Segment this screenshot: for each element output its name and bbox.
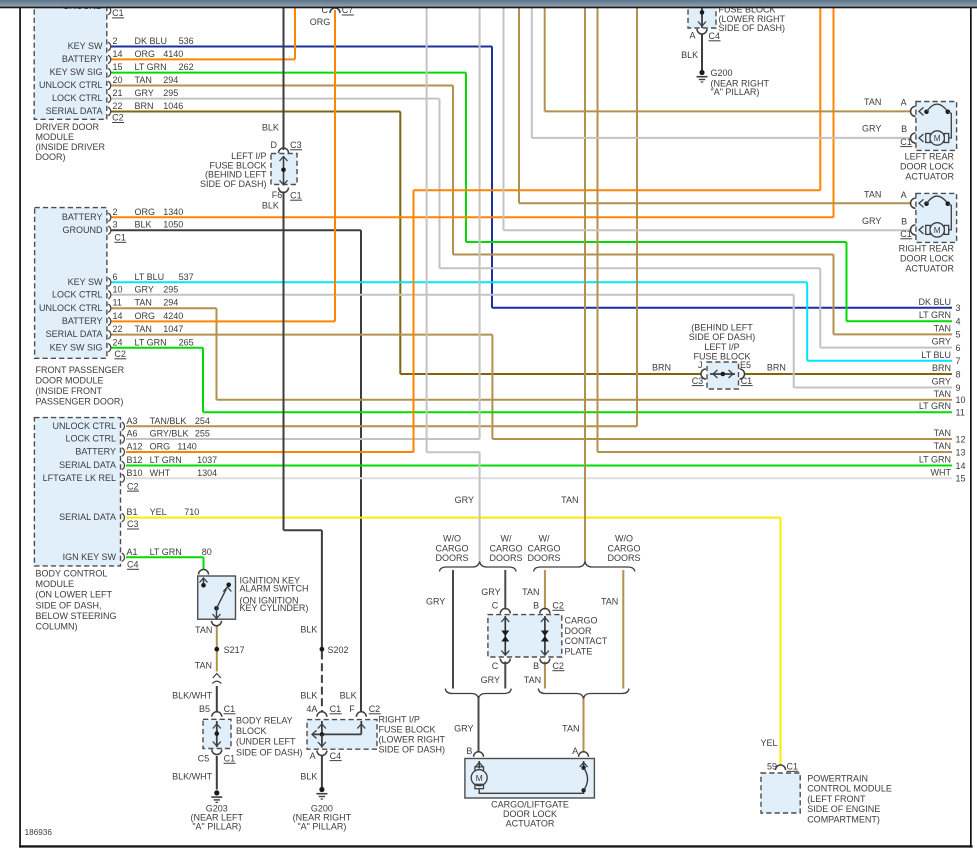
svg-text:CARGO: CARGO (565, 616, 598, 626)
wire GRY/BLK 255 from pin A6 (126, 438, 480, 440)
svg-text:ORG: ORG (135, 311, 156, 321)
svg-text:F: F (349, 704, 355, 714)
pin A12 BATTERY (122, 448, 125, 456)
front passenger door module box (35, 208, 107, 359)
ground G203 (214, 790, 219, 795)
svg-text:CARGO: CARGO (489, 543, 522, 553)
svg-text:(LOWER RIGHT: (LOWER RIGHT (379, 735, 446, 745)
svg-text:GRY: GRY (135, 284, 154, 294)
svg-text:DRIVER DOOR: DRIVER DOOR (36, 122, 100, 132)
wire ORG 4240 from pin 14 (111, 320, 335, 322)
svg-text:C1: C1 (900, 229, 912, 239)
svg-text:FRONT PASSENGER: FRONT PASSENGER (36, 365, 125, 375)
pin 22 SERIAL DATA (108, 107, 111, 115)
svg-text:COLUMN): COLUMN) (36, 622, 78, 632)
cargo/liftgate door lock actuator internals (478, 761, 480, 769)
wire BLK driver door ground to fuse block (283, 8, 285, 150)
wire TAN 294 from pin 11 (111, 307, 217, 309)
pin 10 LOCK CTRL (108, 291, 111, 299)
wire BLK dashed from S202 to right I/P fuse block (321, 652, 323, 713)
wire LT GRN vertical right (846, 242, 848, 321)
wire TAN ignition switch to S217 (216, 627, 218, 648)
left I/P fuse block (D-F6) box (271, 154, 297, 185)
svg-text:A6: A6 (127, 429, 138, 439)
wire LT GRN 265 vertical (202, 348, 204, 412)
wire BRN to fuse block pin J (400, 373, 701, 375)
svg-text:BLK: BLK (135, 220, 152, 230)
svg-text:ALARM SWITCH: ALARM SWITCH (240, 583, 309, 593)
body control module box (34, 418, 120, 566)
svg-text:1046: 1046 (163, 101, 183, 111)
wire TAN/BLK 254 from BCM pin A3 (126, 425, 637, 427)
svg-text:BATTERY: BATTERY (62, 212, 103, 222)
svg-text:PLATE: PLATE (565, 646, 593, 656)
svg-text:BODY CONTROL: BODY CONTROL (36, 569, 108, 579)
svg-text:DOORS: DOORS (489, 553, 522, 563)
svg-text:(BEHIND LEFT: (BEHIND LEFT (691, 323, 753, 333)
svg-text:22: 22 (113, 101, 123, 111)
wire TAN to terminal 13 (598, 451, 953, 453)
wire GRY 295 from pin 10 (111, 294, 794, 296)
svg-text:11: 11 (956, 408, 965, 418)
wire LT GRN 80 down to ignition switch (203, 557, 205, 569)
svg-text:BODY RELAY: BODY RELAY (236, 716, 293, 726)
svg-text:GRY/BLK: GRY/BLK (150, 429, 189, 439)
svg-text:24: 24 (113, 337, 123, 347)
wire TAN to left rear actuator pin A (545, 110, 912, 112)
svg-text:1050: 1050 (163, 220, 183, 230)
svg-text:ACTUATOR: ACTUATOR (905, 264, 954, 274)
inline connector on BLK/WHT wire (213, 674, 221, 679)
svg-text:14: 14 (113, 311, 123, 321)
svg-text:A: A (689, 31, 695, 41)
wire TAN to cargo actuator pin A (583, 698, 585, 753)
left rear door lock actuator internals (911, 106, 916, 116)
wire BLK 1050 from pin 3 (111, 229, 361, 231)
fuse block lower right side of dash internals (701, 6, 703, 28)
svg-text:11: 11 (113, 298, 122, 308)
svg-text:C2: C2 (552, 661, 564, 671)
svg-text:BLK: BLK (300, 772, 317, 782)
wire GRY to right rear actuator pin B (504, 229, 912, 231)
svg-text:B: B (533, 601, 539, 611)
wire TAN to terminal 5 (834, 333, 953, 335)
wire TAN 294 vertical (452, 86, 454, 255)
svg-text:C5: C5 (198, 754, 210, 764)
svg-text:186936: 186936 (25, 828, 53, 837)
svg-text:294: 294 (163, 298, 178, 308)
svg-text:1047: 1047 (163, 324, 183, 334)
svg-text:C3: C3 (127, 519, 139, 529)
svg-text:SIDE OF DASH): SIDE OF DASH) (719, 23, 786, 33)
svg-text:W/: W/ (501, 534, 512, 544)
svg-text:(ON LOWER LEFT: (ON LOWER LEFT (36, 590, 113, 600)
svg-text:TAN: TAN (864, 190, 881, 200)
svg-text:GRY: GRY (481, 587, 500, 597)
svg-text:BLK/WHT: BLK/WHT (172, 772, 213, 782)
wire GRY jog (427, 451, 480, 453)
wire LT GRN 80 from pin A1 (126, 556, 204, 558)
svg-text:TAN: TAN (934, 323, 951, 333)
svg-text:1037: 1037 (197, 455, 217, 465)
svg-text:TAN: TAN (522, 587, 539, 597)
svg-text:255: 255 (195, 429, 210, 439)
svg-text:TAN: TAN (195, 661, 212, 671)
svg-text:SIDE OF DASH): SIDE OF DASH) (236, 747, 303, 757)
upper brace tan split (534, 562, 635, 572)
svg-text:SERIAL DATA: SERIAL DATA (46, 106, 103, 116)
svg-text:BRN: BRN (767, 362, 786, 372)
wire GRY/BLK vertical to top (479, 8, 481, 439)
wire TAN from top to cargo brace (584, 8, 586, 562)
svg-text:ACTUATOR: ACTUATOR (905, 172, 954, 182)
svg-text:295: 295 (163, 284, 178, 294)
svg-text:5: 5 (956, 330, 961, 340)
svg-text:LT GRN: LT GRN (919, 401, 951, 411)
svg-text:C2: C2 (112, 113, 124, 123)
svg-text:(LEFT FRONT: (LEFT FRONT (807, 794, 866, 804)
svg-text:TAN: TAN (601, 597, 618, 607)
wire GRY 295 vertical (439, 99, 441, 269)
svg-text:BRN: BRN (135, 101, 154, 111)
body relay block internals (216, 721, 218, 747)
svg-text:A: A (572, 746, 578, 756)
svg-text:BELOW STEERING: BELOW STEERING (36, 611, 117, 621)
svg-text:6: 6 (113, 272, 118, 282)
svg-text:B10: B10 (127, 468, 143, 478)
svg-text:BLK/WHT: BLK/WHT (172, 691, 213, 701)
pin A1 IGN KEY SW (122, 553, 125, 561)
wire GRY to terminal 6 (820, 347, 952, 349)
right I/P fuse block internals (321, 721, 323, 734)
wire TAN 294 vertical (216, 308, 218, 400)
svg-text:CONTROL MODULE: CONTROL MODULE (807, 784, 892, 794)
powertrain control module box (761, 773, 800, 813)
lower brace gry merge (445, 689, 511, 699)
wire TAN 1047 from pin 22 (111, 334, 492, 336)
svg-text:WHT: WHT (931, 467, 952, 477)
svg-text:CONTACT: CONTACT (565, 636, 608, 646)
pin 22 SERIAL DATA (108, 330, 111, 338)
svg-text:LEFT REAR: LEFT REAR (905, 152, 955, 162)
svg-text:UNLOCK CTRL: UNLOCK CTRL (39, 303, 103, 313)
svg-text:C1: C1 (112, 8, 124, 18)
svg-text:SIDE OF DASH): SIDE OF DASH) (379, 745, 446, 755)
wire GRY down to brace (479, 452, 481, 561)
svg-text:710: 710 (184, 507, 199, 517)
svg-text:DK BLU: DK BLU (918, 297, 951, 307)
pin C1 driver door module ground (108, 6, 111, 14)
wire LT GRN 262 horizontal (466, 241, 847, 243)
wire BLK/WHT to ground G203 (216, 756, 218, 790)
svg-text:10: 10 (956, 395, 966, 405)
wire LT GRN 262 vertical (465, 73, 467, 242)
wire BLK down to splice S202 (321, 530, 323, 648)
svg-text:A12: A12 (127, 442, 143, 452)
wire BLK from fuse F6 down (283, 192, 285, 531)
wire GRY to left rear actuator pin B (532, 137, 912, 139)
wire BLK jog (284, 529, 322, 531)
wire LT GRN 262 from pin 15 (111, 72, 466, 74)
svg-text:295: 295 (163, 88, 178, 98)
wire TAN w/o cargo doors leg (622, 570, 624, 689)
pin 3 GROUND (108, 226, 111, 234)
svg-text:RIGHT REAR: RIGHT REAR (899, 244, 955, 254)
svg-text:COMPARTMENT): COMPARTMENT) (807, 814, 880, 824)
svg-text:GRY: GRY (481, 675, 500, 685)
svg-text:D: D (271, 140, 278, 150)
body relay block box (203, 719, 231, 748)
svg-text:DOOR LOCK: DOOR LOCK (900, 162, 954, 172)
svg-text:294: 294 (163, 75, 178, 85)
pin 20 UNLOCK CTRL (108, 81, 111, 89)
svg-text:A3: A3 (127, 416, 138, 426)
svg-text:SERIAL DATA: SERIAL DATA (46, 329, 103, 339)
svg-text:BLK: BLK (681, 50, 698, 60)
svg-text:GROUND: GROUND (63, 225, 103, 235)
pin 2 BATTERY (108, 213, 111, 221)
svg-text:W/O: W/O (615, 534, 633, 544)
svg-text:SERIAL DATA: SERIAL DATA (59, 460, 116, 470)
svg-text:A1: A1 (127, 547, 138, 557)
wire WHT 1304 from pin B10 to terminal 15 (126, 477, 952, 479)
svg-text:BATTERY: BATTERY (75, 447, 116, 457)
svg-text:B: B (901, 217, 907, 227)
svg-text:SERIAL DATA: SERIAL DATA (59, 512, 116, 522)
svg-text:(INSIDE FRONT: (INSIDE FRONT (36, 386, 103, 396)
svg-text:C2: C2 (369, 704, 381, 714)
svg-text:ORG: ORG (135, 49, 156, 59)
svg-text:1140: 1140 (177, 442, 196, 452)
svg-text:W/O: W/O (443, 534, 461, 544)
svg-text:BATTERY: BATTERY (62, 316, 103, 326)
svg-text:21: 21 (113, 88, 123, 98)
svg-text:DOOR: DOOR (565, 626, 593, 636)
svg-text:C3: C3 (692, 376, 704, 386)
wire DK BLU 536 from driver door module pin 2 (111, 46, 492, 48)
svg-text:80: 80 (202, 547, 212, 557)
svg-text:22: 22 (113, 324, 123, 334)
svg-text:15: 15 (113, 62, 123, 72)
wire TAN to terminal 10 (217, 399, 953, 401)
svg-text:10: 10 (113, 284, 123, 294)
svg-text:LT GRN: LT GRN (919, 310, 951, 320)
svg-text:KEY SW SIG: KEY SW SIG (50, 342, 103, 352)
svg-text:GRY: GRY (862, 124, 881, 134)
wire TAN from top (544, 8, 546, 111)
svg-text:LFTGATE LK REL: LFTGATE LK REL (43, 473, 116, 483)
svg-text:1304: 1304 (197, 468, 217, 478)
svg-text:BRN: BRN (932, 363, 951, 373)
wire ORG 1140 vertical to top (819, 8, 821, 190)
svg-text:13: 13 (956, 447, 966, 457)
svg-text:TAN: TAN (135, 298, 152, 308)
connector C7 at top (330, 8, 340, 13)
wire TAN vertical right (833, 255, 835, 335)
svg-text:C4: C4 (330, 751, 342, 761)
svg-text:DK BLU: DK BLU (135, 36, 168, 46)
pin B12 SERIAL DATA (122, 461, 125, 469)
pin 11 UNLOCK CTRL (108, 304, 111, 312)
svg-text:GRY: GRY (426, 597, 445, 607)
svg-text:GRY: GRY (455, 495, 474, 505)
svg-text:ORG: ORG (310, 17, 331, 27)
svg-text:LOCK CTRL: LOCK CTRL (65, 434, 116, 444)
wire BLK fuse block to ground G200 top right (701, 34, 703, 71)
svg-text:4140: 4140 (163, 49, 183, 59)
wire ORG 4140 from pin 14 (111, 58, 295, 60)
svg-text:TAN: TAN (524, 675, 541, 685)
wire GRY from top (503, 8, 505, 230)
svg-text:C1: C1 (330, 704, 342, 714)
svg-text:"A" PILLAR): "A" PILLAR) (192, 822, 241, 832)
svg-text:C1: C1 (787, 762, 799, 772)
svg-text:GRY: GRY (932, 377, 951, 387)
svg-text:LEFT I/P: LEFT I/P (704, 342, 739, 352)
svg-text:LOCK CTRL: LOCK CTRL (52, 93, 103, 103)
wire GRY vertical right (819, 268, 821, 347)
wire TAN/BLK vertical to top (636, 8, 638, 426)
svg-text:FUSE BLOCK: FUSE BLOCK (693, 352, 750, 362)
svg-text:GRY: GRY (454, 724, 473, 734)
svg-text:ORG: ORG (150, 442, 171, 452)
svg-text:TAN: TAN (135, 75, 152, 85)
svg-text:YEL: YEL (760, 738, 777, 748)
wire BLK to ground G200 (321, 756, 323, 787)
svg-text:S217: S217 (224, 645, 245, 655)
svg-text:7: 7 (956, 356, 961, 366)
svg-text:254: 254 (195, 416, 210, 426)
wire TAN to terminal 12 (492, 438, 952, 440)
svg-text:M: M (934, 134, 941, 143)
svg-text:TAN: TAN (934, 441, 951, 451)
svg-text:3: 3 (113, 220, 118, 230)
svg-text:C1: C1 (290, 190, 302, 200)
svg-text:DOOR LOCK: DOOR LOCK (503, 809, 557, 819)
svg-text:4: 4 (956, 317, 961, 327)
svg-text:537: 537 (179, 272, 194, 282)
svg-text:(INSIDE DRIVER: (INSIDE DRIVER (36, 142, 106, 152)
svg-text:DOORS: DOORS (435, 553, 468, 563)
svg-text:C2: C2 (114, 349, 126, 359)
svg-text:KEY SW: KEY SW (68, 277, 103, 287)
wire GRY vertical (793, 295, 795, 388)
wire LT BLU 537 from pin 6 (111, 281, 807, 283)
svg-text:TAN: TAN (561, 495, 578, 505)
svg-text:KEY SW SIG: KEY SW SIG (50, 67, 103, 77)
wire GRY 295 from pin 21 (111, 98, 440, 100)
svg-text:DOOR MODULE: DOOR MODULE (36, 375, 104, 385)
pin A6 LOCK CTRL (122, 435, 125, 443)
svg-text:GRY: GRY (135, 88, 154, 98)
svg-text:LOCK CTRL: LOCK CTRL (52, 289, 103, 299)
svg-text:LT GRN: LT GRN (135, 337, 167, 347)
wire ORG 1340 vertical to top (833, 8, 835, 217)
svg-text:TAN/BLK: TAN/BLK (150, 416, 187, 426)
svg-text:A: A (901, 98, 907, 108)
wire GRY below contact plate (504, 662, 506, 689)
pin 21 LOCK CTRL (108, 94, 111, 102)
svg-text:14: 14 (113, 49, 123, 59)
wire GRY w/o cargo doors leg (452, 570, 454, 689)
svg-text:M: M (476, 773, 483, 783)
upper brace gry split (440, 562, 517, 572)
svg-text:POWERTRAIN: POWERTRAIN (807, 774, 868, 784)
svg-text:SIDE OF ENGINE: SIDE OF ENGINE (807, 804, 880, 814)
svg-text:TAN: TAN (864, 97, 881, 107)
svg-text:B12: B12 (127, 455, 143, 465)
svg-text:GRY: GRY (932, 337, 951, 347)
svg-text:"A" PILLAR): "A" PILLAR) (297, 822, 346, 832)
left rear door lock actuator box (916, 102, 957, 151)
svg-text:SIDE OF DASH): SIDE OF DASH) (689, 332, 756, 342)
svg-text:G200: G200 (711, 68, 733, 78)
wire ORG 1140 from pin A12 (126, 451, 414, 453)
wire LT GRN 1037 from pin B12 to terminal 14 (126, 465, 952, 467)
wire BRN 1046 vertical (399, 112, 401, 375)
svg-text:BLK: BLK (300, 691, 317, 701)
svg-text:IGN KEY SW: IGN KEY SW (63, 552, 117, 562)
cargo door contact plate box (488, 615, 562, 657)
pin 14 BATTERY (108, 317, 111, 325)
svg-text:SIDE OF DASH): SIDE OF DASH) (200, 179, 267, 189)
svg-text:C: C (492, 601, 499, 611)
svg-text:DOOR LOCK: DOOR LOCK (900, 254, 954, 264)
svg-text:DOORS: DOORS (607, 553, 640, 563)
svg-text:B: B (466, 746, 472, 756)
pin B10 LFTGATE LK REL (122, 474, 125, 482)
svg-text:C2: C2 (552, 601, 564, 611)
svg-text:BLK: BLK (262, 123, 279, 133)
svg-text:15: 15 (956, 474, 966, 484)
svg-text:B1: B1 (127, 507, 138, 517)
ignition key alarm switch internals (199, 570, 209, 575)
wire TAN from top (597, 8, 599, 452)
wire DK BLU to terminal 3 (492, 307, 952, 309)
svg-text:CARGO: CARGO (527, 543, 560, 553)
wire YEL vertical to PCM (780, 518, 782, 766)
svg-text:KEY SW: KEY SW (68, 41, 103, 51)
wire LT GRN to terminal 11 (203, 411, 952, 413)
svg-text:CARGO: CARGO (435, 543, 468, 553)
pin B1 SERIAL DATA (122, 513, 125, 521)
wire TAN below contact plate (544, 662, 546, 689)
wire ORG 1140 horizontal (414, 189, 821, 191)
svg-text:C1: C1 (224, 704, 236, 714)
wire BLK/WHT to body relay block (216, 686, 218, 713)
svg-text:BATTERY: BATTERY (62, 54, 103, 64)
svg-text:536: 536 (179, 36, 194, 46)
svg-text:LT GRN: LT GRN (150, 455, 182, 465)
lower brace tan merge (538, 689, 629, 699)
left I/P fuse block (J-E5) box (707, 362, 739, 389)
wire LT GRN 265 from pin 24 (111, 347, 203, 349)
wire YEL 710 from pin B1 (126, 517, 781, 519)
svg-text:LT BLU: LT BLU (135, 272, 165, 282)
pin 2 KEY SW (108, 42, 111, 50)
svg-text:BLK: BLK (300, 625, 317, 635)
pin 6 KEY SW (108, 278, 111, 286)
svg-text:F6: F6 (272, 190, 283, 200)
svg-text:20: 20 (113, 75, 123, 85)
svg-text:PASSENGER DOOR): PASSENGER DOOR) (36, 397, 124, 407)
svg-text:MODULE: MODULE (36, 579, 75, 589)
svg-text:S202: S202 (328, 645, 349, 655)
svg-text:CARGO/LIFTGATE: CARGO/LIFTGATE (491, 800, 569, 810)
svg-text:12: 12 (956, 434, 966, 444)
svg-text:BLK: BLK (262, 201, 279, 211)
svg-text:265: 265 (179, 337, 194, 347)
